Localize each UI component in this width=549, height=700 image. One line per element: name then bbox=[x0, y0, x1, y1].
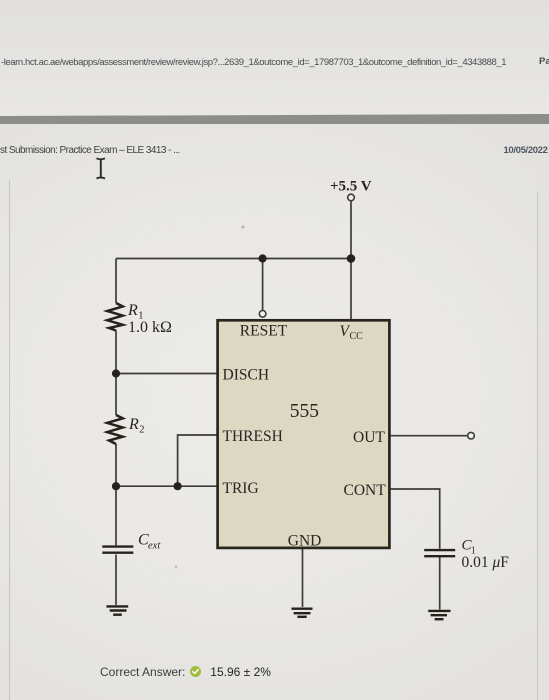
svg-text:DISCH: DISCH bbox=[223, 367, 270, 384]
svg-text:RESET: RESET bbox=[240, 322, 288, 339]
svg-text:R: R bbox=[128, 416, 139, 433]
svg-text:ext: ext bbox=[148, 540, 161, 551]
svg-text:THRESH: THRESH bbox=[223, 428, 283, 445]
svg-text:1.0 kΩ: 1.0 kΩ bbox=[128, 319, 172, 336]
svg-text:CONT: CONT bbox=[344, 482, 387, 499]
svg-text:TRIG: TRIG bbox=[223, 480, 259, 497]
svg-text:GND: GND bbox=[288, 533, 322, 550]
svg-text:CC: CC bbox=[350, 331, 364, 342]
svg-text:2: 2 bbox=[139, 425, 144, 436]
svg-text:OUT: OUT bbox=[353, 429, 385, 446]
svg-text:R: R bbox=[127, 302, 138, 319]
svg-text:0.01 μF: 0.01 μF bbox=[462, 554, 510, 571]
svg-text:+5.5 V: +5.5 V bbox=[330, 179, 372, 195]
svg-text:555: 555 bbox=[290, 401, 319, 422]
